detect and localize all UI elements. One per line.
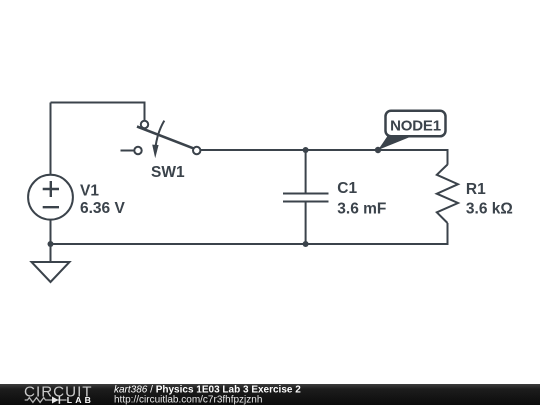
svg-text:3.6 mF: 3.6 mF — [337, 200, 386, 217]
capacitor C1 — [283, 194, 329, 202]
wire: C1 top lead — [305, 150, 307, 193]
wire: left rail from top corner to V1 top — [50, 103, 52, 176]
node: junction dot at C1 bottom — [303, 241, 309, 247]
svg-text:C1: C1 — [337, 180, 357, 197]
wire: top-left horizontal and drop to switch terminal — [51, 103, 145, 122]
node: junction dot at V1 bottom — [48, 241, 54, 247]
wire: R1 bottom lead and bottom rail — [51, 223, 448, 244]
svg-text:http://circuitlab.com/c7r3fhfp: http://circuitlab.com/c7r3fhfpzjznh — [114, 394, 262, 405]
CircuitLab logo — [24, 384, 94, 405]
node: junction dot at C1 top — [303, 147, 309, 153]
wire: top rail from switch to right corner — [200, 150, 447, 165]
svg-text:6.36 V: 6.36 V — [80, 200, 125, 217]
svg-text:3.6 kΩ: 3.6 kΩ — [466, 200, 513, 217]
wire: ground stub — [50, 244, 52, 262]
node label NODE1 callout — [378, 111, 446, 150]
footer bar — [0, 384, 540, 405]
node NODE1 dot — [375, 147, 381, 153]
svg-text:R1: R1 — [466, 181, 486, 198]
switch SW1 — [121, 121, 201, 159]
wire: V1 bottom to ground junction — [50, 220, 52, 244]
svg-text:NODE1: NODE1 — [390, 118, 441, 135]
svg-text:SW1: SW1 — [151, 164, 185, 181]
voltage source V1 — [28, 175, 73, 220]
svg-text:LAB: LAB — [67, 395, 94, 405]
resistor R1 — [437, 165, 458, 224]
ground — [32, 262, 70, 282]
svg-text:V1: V1 — [80, 183, 99, 200]
wire: C1 bottom lead — [305, 202, 307, 244]
